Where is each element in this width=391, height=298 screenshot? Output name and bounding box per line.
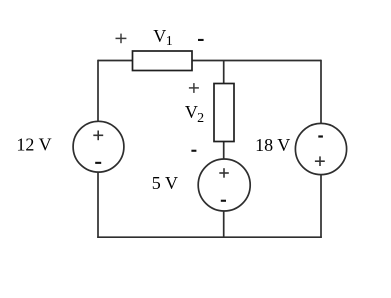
wire: left vertical upper segment <box>97 60 99 122</box>
polarity - label below V2 beside middle branch <box>191 150 196 152</box>
polarity + label above V2 beside middle branch <box>189 83 199 93</box>
voltage source 5 V (middle circle) <box>198 159 250 211</box>
polarity - inside 18 V source <box>318 135 323 137</box>
svg-text:5 V: 5 V <box>152 173 178 193</box>
voltage source 18 V (right circle) <box>295 123 346 174</box>
polarity - inside 5 V source <box>221 200 226 202</box>
svg-text:18 V: 18 V <box>255 135 290 155</box>
wire: top horizontal from node at left branch to right branch <box>98 60 321 62</box>
element V1 (rectangular box in top wire) <box>133 51 193 71</box>
polarity + inside 18 V source <box>315 156 325 166</box>
polarity + inside 12 V source <box>93 131 103 141</box>
polarity - inside 12 V source <box>95 162 101 164</box>
wire: middle vertical from 5 V source to bottom wire <box>223 211 225 238</box>
wire: left vertical lower segment <box>97 172 99 238</box>
svg-text:V: V <box>153 26 166 46</box>
polarity + inside 5 V source <box>219 168 229 178</box>
wire: right vertical upper segment <box>320 60 322 124</box>
svg-text:2: 2 <box>197 111 204 126</box>
polarity - label right of V1 above top wire <box>198 39 204 41</box>
svg-text:1: 1 <box>166 34 173 49</box>
svg-text:12 V: 12 V <box>16 135 51 155</box>
wire: bottom horizontal from left branch to right branch <box>97 236 322 238</box>
element V2 (rectangular box in middle branch) <box>214 84 234 142</box>
wire: middle vertical from top wire to element V2 <box>223 61 225 85</box>
wire: right vertical lower segment <box>320 175 322 238</box>
polarity + label left of V1 above top wire <box>116 34 127 44</box>
wire: middle vertical from element V2 to 5 V source <box>223 141 225 160</box>
voltage source 12 V (left circle) <box>73 121 124 172</box>
svg-text:V: V <box>185 102 198 122</box>
